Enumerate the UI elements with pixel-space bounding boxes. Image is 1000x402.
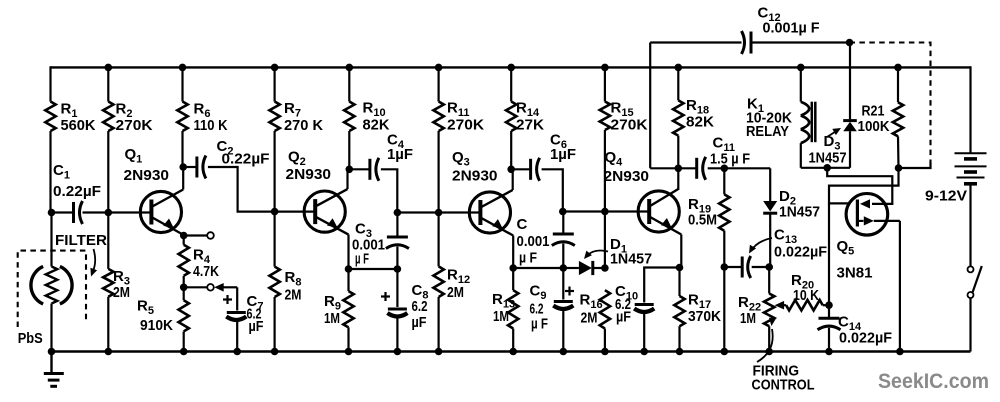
junction relay output node A	[823, 164, 831, 172]
svg-text:1M: 1M	[324, 310, 340, 327]
wire C1 row / Q1 base	[51, 211, 74, 213]
ground	[50, 352, 52, 374]
wire R14 column	[510, 67, 512, 101]
capacitor C2	[195, 157, 198, 178]
junction top rail / K1 relay	[797, 64, 805, 72]
wire Q2 collector	[346, 169, 348, 189]
junction bottom rail / R16	[601, 348, 609, 356]
svg-text:µF: µF	[616, 309, 631, 326]
capacitor C12	[650, 41, 741, 43]
arrow D1	[586, 251, 608, 257]
svg-text:SeekIC.com: SeekIC.com	[878, 370, 989, 393]
wire R18 column	[677, 67, 679, 100]
resistor R7	[269, 102, 279, 132]
junction Q1 emitter node	[180, 232, 188, 240]
wire left column (R1/C1/PbS)	[49, 66, 51, 101]
junction bottom rail / C14	[825, 348, 833, 356]
junction R21/gate node B	[895, 164, 903, 172]
junction C(0.001) top node	[559, 208, 567, 216]
junction R20/C14 node	[825, 301, 833, 309]
junction bottom rail / R22	[765, 348, 773, 356]
wire R5 to rail	[183, 331, 185, 351]
junction bottom rail / C7	[233, 348, 241, 356]
wire C6 to Q4 base	[511, 168, 530, 170]
junction bottom rail / R13	[509, 348, 517, 356]
svg-text:PbS: PbS	[18, 330, 43, 347]
svg-text:270K: 270K	[447, 117, 484, 134]
svg-text:0.22µF: 0.22µF	[222, 151, 270, 168]
junction top rail / R14	[507, 64, 515, 72]
capacitor C7 (electrolytic)	[227, 311, 246, 314]
junction D2/C13/R22 node	[765, 263, 773, 271]
junction top rail / R2	[105, 64, 113, 72]
resistor R6	[177, 102, 187, 132]
resistor R21	[897, 67, 899, 102]
svg-text:2N930: 2N930	[604, 168, 650, 185]
wire Q3 emitter	[512, 236, 514, 269]
junction C9/D1 node	[560, 264, 568, 272]
resistor R3	[103, 269, 113, 297]
svg-text:0.001: 0.001	[517, 233, 550, 250]
top supply rail	[51, 66, 971, 68]
wire C3 column	[396, 213, 398, 238]
wire R7/R8 column	[274, 67, 276, 101]
svg-text:1µF: 1µF	[387, 146, 413, 163]
junction top rail / R7	[271, 64, 279, 72]
junction bottom rail / PbS/ground	[48, 348, 56, 356]
svg-text:C: C	[517, 216, 528, 233]
arrow FIRING CONTROL	[757, 329, 773, 362]
svg-text:27K: 27K	[516, 117, 544, 134]
svg-text:82K: 82K	[363, 117, 390, 134]
resistor R17	[678, 268, 680, 297]
svg-text:2M: 2M	[581, 310, 598, 327]
wire Q2 emitter	[347, 235, 349, 269]
potentiometer R22	[768, 267, 770, 294]
junction C11/R19 node	[721, 165, 729, 173]
capacitor C3	[387, 236, 408, 239]
junction C13 left node	[721, 263, 729, 271]
svg-text:1M: 1M	[740, 310, 756, 327]
resistor R14	[506, 102, 516, 132]
svg-text:1µF: 1µF	[550, 146, 576, 163]
svg-text:560K: 560K	[61, 117, 96, 134]
svg-text:0.5M: 0.5M	[688, 212, 717, 229]
junction bottom rail / C9	[560, 348, 568, 356]
junction bottom rail / C10	[640, 348, 648, 356]
junction top rail / R6	[179, 64, 187, 72]
battery 9-12V	[969, 66, 971, 153]
junction bottom rail / R19 ground leg	[721, 348, 729, 356]
junction Q2 emitter node	[345, 265, 353, 273]
junction top rail / R15	[601, 64, 609, 72]
dashed FILTER box	[18, 251, 86, 327]
wire R2/R3 column	[107, 67, 109, 101]
junction D1 cathode/R16 node	[601, 264, 609, 272]
junction bottom rail / R9	[345, 348, 353, 356]
svg-text:0.022µF: 0.022µF	[839, 330, 892, 347]
svg-text:6.2: 6.2	[412, 298, 428, 315]
svg-text:4.7K: 4.7K	[193, 263, 219, 280]
svg-text:µ F: µ F	[519, 250, 537, 267]
junction bottom rail / C8	[394, 348, 402, 356]
junction C1 left node	[48, 209, 56, 217]
svg-text:µ F: µ F	[531, 316, 548, 333]
junction Q2 base node	[271, 208, 279, 216]
svg-text:RELAY: RELAY	[746, 123, 789, 140]
resistor R13	[512, 268, 514, 290]
wiper arrow to lower terminal	[214, 283, 224, 292]
svg-text:µF: µF	[249, 318, 264, 335]
svg-text:82K: 82K	[686, 114, 714, 131]
junction top rail / R18	[675, 64, 683, 72]
svg-text:2M: 2M	[285, 287, 302, 304]
resistor R16	[600, 290, 610, 328]
transistor Q2	[304, 191, 345, 232]
junction bottom rail / R12	[435, 348, 443, 356]
svg-text:2N930: 2N930	[286, 166, 332, 183]
wire R4-R5	[183, 276, 185, 301]
junction Q4 base node	[601, 208, 609, 216]
dashed linkage (relay)	[850, 43, 931, 163]
diode D2	[769, 168, 771, 201]
wire R11/R12 column	[438, 67, 440, 101]
svg-text:µF: µF	[412, 314, 427, 331]
svg-text:0.22µF: 0.22µF	[53, 183, 101, 200]
svg-text:2N930: 2N930	[124, 167, 170, 184]
wire gate to R20/C14	[828, 203, 830, 317]
svg-text:270K: 270K	[116, 117, 153, 134]
capacitor C8 (electrolytic)	[396, 269, 398, 307]
junction R4/R5 node	[180, 284, 188, 292]
arrow D3	[827, 130, 838, 137]
wire Q4 emitter	[680, 235, 682, 268]
svg-text:110 K: 110 K	[194, 117, 228, 134]
svg-text:100K: 100K	[858, 118, 890, 135]
resistor R15	[600, 102, 610, 131]
wire emitter tap stub	[184, 234, 208, 236]
svg-text:CONTROL: CONTROL	[752, 377, 815, 394]
resistor R2	[103, 102, 113, 132]
wire C2 to Q2 base	[183, 166, 197, 168]
svg-text:1N457: 1N457	[779, 204, 820, 221]
wire Q4 collector	[677, 168, 679, 190]
svg-text:270 K: 270 K	[284, 117, 323, 134]
terminal (open) upper	[207, 232, 214, 239]
junction Q4 collector node	[675, 165, 683, 173]
junction top rail / R11	[435, 64, 443, 72]
wire C7 to rail	[236, 320, 238, 352]
junction top rail / R21	[894, 64, 902, 72]
transistor Q1	[140, 191, 181, 232]
capacitor C11	[695, 158, 698, 179]
junction Q3 collector node	[507, 166, 515, 174]
resistor R11	[433, 102, 443, 132]
wire C11 row	[678, 167, 696, 169]
capacitor C9 (electrolytic)	[562, 268, 564, 300]
transistor Q5 (3N81 MOSFET)	[846, 194, 888, 236]
capacitor C1	[72, 202, 75, 223]
arrow C13	[751, 238, 772, 251]
junction bottom rail / R3	[105, 348, 113, 356]
resistor R18	[673, 100, 683, 135]
switch	[968, 266, 974, 272]
wire R10 column	[348, 67, 350, 101]
capacitor C4	[368, 159, 371, 180]
capacitor C13	[724, 266, 742, 268]
svg-text:370K: 370K	[688, 308, 721, 325]
junction Q4 emitter/R17 node	[676, 264, 684, 272]
svg-text:10 K: 10 K	[793, 287, 819, 304]
svg-text:1N457: 1N457	[610, 251, 652, 268]
svg-text:270K: 270K	[611, 117, 648, 134]
capacitor C (0.001uF)	[553, 233, 574, 236]
svg-text:0.022µF: 0.022µF	[774, 244, 827, 261]
resistor R4	[179, 245, 189, 276]
svg-text:1.5 µ F: 1.5 µ F	[710, 151, 750, 168]
capacitor C14	[819, 317, 840, 320]
wire Q1 collector	[182, 167, 184, 190]
junction C3 top node	[394, 209, 402, 217]
wire Q5 drain	[857, 220, 863, 222]
junction C3/C8 node	[394, 265, 402, 273]
resistor R19	[723, 168, 725, 194]
svg-text:µ F: µ F	[355, 251, 369, 268]
diode D3	[849, 43, 851, 120]
wire Q1 emitter	[183, 235, 185, 245]
resistor R8	[269, 267, 279, 297]
resistor R5	[179, 300, 189, 331]
wire R4/R5 junction tap	[184, 286, 208, 288]
arrow FILTER	[92, 249, 95, 273]
junction Q2 collector node	[346, 166, 354, 174]
photocell PbS	[60, 266, 72, 304]
wire R15/R16 column	[604, 67, 606, 101]
svg-text:9-12V: 9-12V	[925, 188, 967, 205]
transistor Q3	[469, 192, 510, 233]
junction Q3 base node	[435, 209, 443, 217]
diode D1	[563, 267, 579, 269]
resistor R10	[344, 102, 354, 132]
wire C column	[562, 212, 564, 235]
svg-text:910K: 910K	[140, 317, 173, 334]
svg-text:2N930: 2N930	[452, 168, 498, 185]
transistor Q4	[638, 191, 679, 232]
svg-text:0.001µ F: 0.001µ F	[763, 20, 820, 37]
resistor R20	[786, 300, 823, 310]
svg-text:1N457: 1N457	[809, 150, 847, 167]
wiper arrow R22	[775, 301, 785, 310]
junction C12/D3 node	[846, 39, 854, 47]
wire R6 column	[181, 67, 183, 101]
svg-text:R21: R21	[862, 103, 885, 120]
junction bottom rail / R17	[676, 348, 684, 356]
capacitor C6	[529, 159, 532, 180]
wire to C7	[236, 287, 238, 310]
svg-text:1M: 1M	[493, 308, 509, 325]
wire C12 left leg	[649, 43, 651, 169]
svg-text:3N81: 3N81	[837, 265, 873, 282]
wire Q3 collector	[512, 169, 514, 190]
bottom ground rail	[52, 350, 971, 352]
junction Q3 emitter node	[509, 264, 517, 272]
svg-text:2M: 2M	[113, 284, 130, 301]
junction top rail / R10	[346, 64, 354, 72]
wire C4 to Q3 base	[349, 168, 370, 170]
wire relay node to Q5 source	[827, 168, 892, 204]
resistor R12	[433, 266, 443, 297]
wire Q2 emitter row	[349, 268, 398, 270]
resistor R9	[347, 269, 349, 291]
wire Q3 emitter row	[513, 267, 563, 269]
resistor R1	[45, 102, 55, 132]
junction Q1 base node	[105, 209, 113, 217]
relay K1 coil	[800, 67, 802, 101]
svg-text:2M: 2M	[447, 284, 464, 301]
capacitor C10 (electrolytic)	[644, 268, 679, 303]
junction Q1 collector node	[179, 163, 187, 171]
wire Q5 gate path from R21 node	[829, 168, 899, 203]
terminal (open) lower	[207, 284, 214, 291]
junction bottom rail / R5	[180, 348, 188, 356]
svg-text:FILTER: FILTER	[55, 232, 107, 249]
junction bottom rail / Q5 drain	[896, 348, 904, 356]
junction bottom rail / R8	[271, 348, 279, 356]
